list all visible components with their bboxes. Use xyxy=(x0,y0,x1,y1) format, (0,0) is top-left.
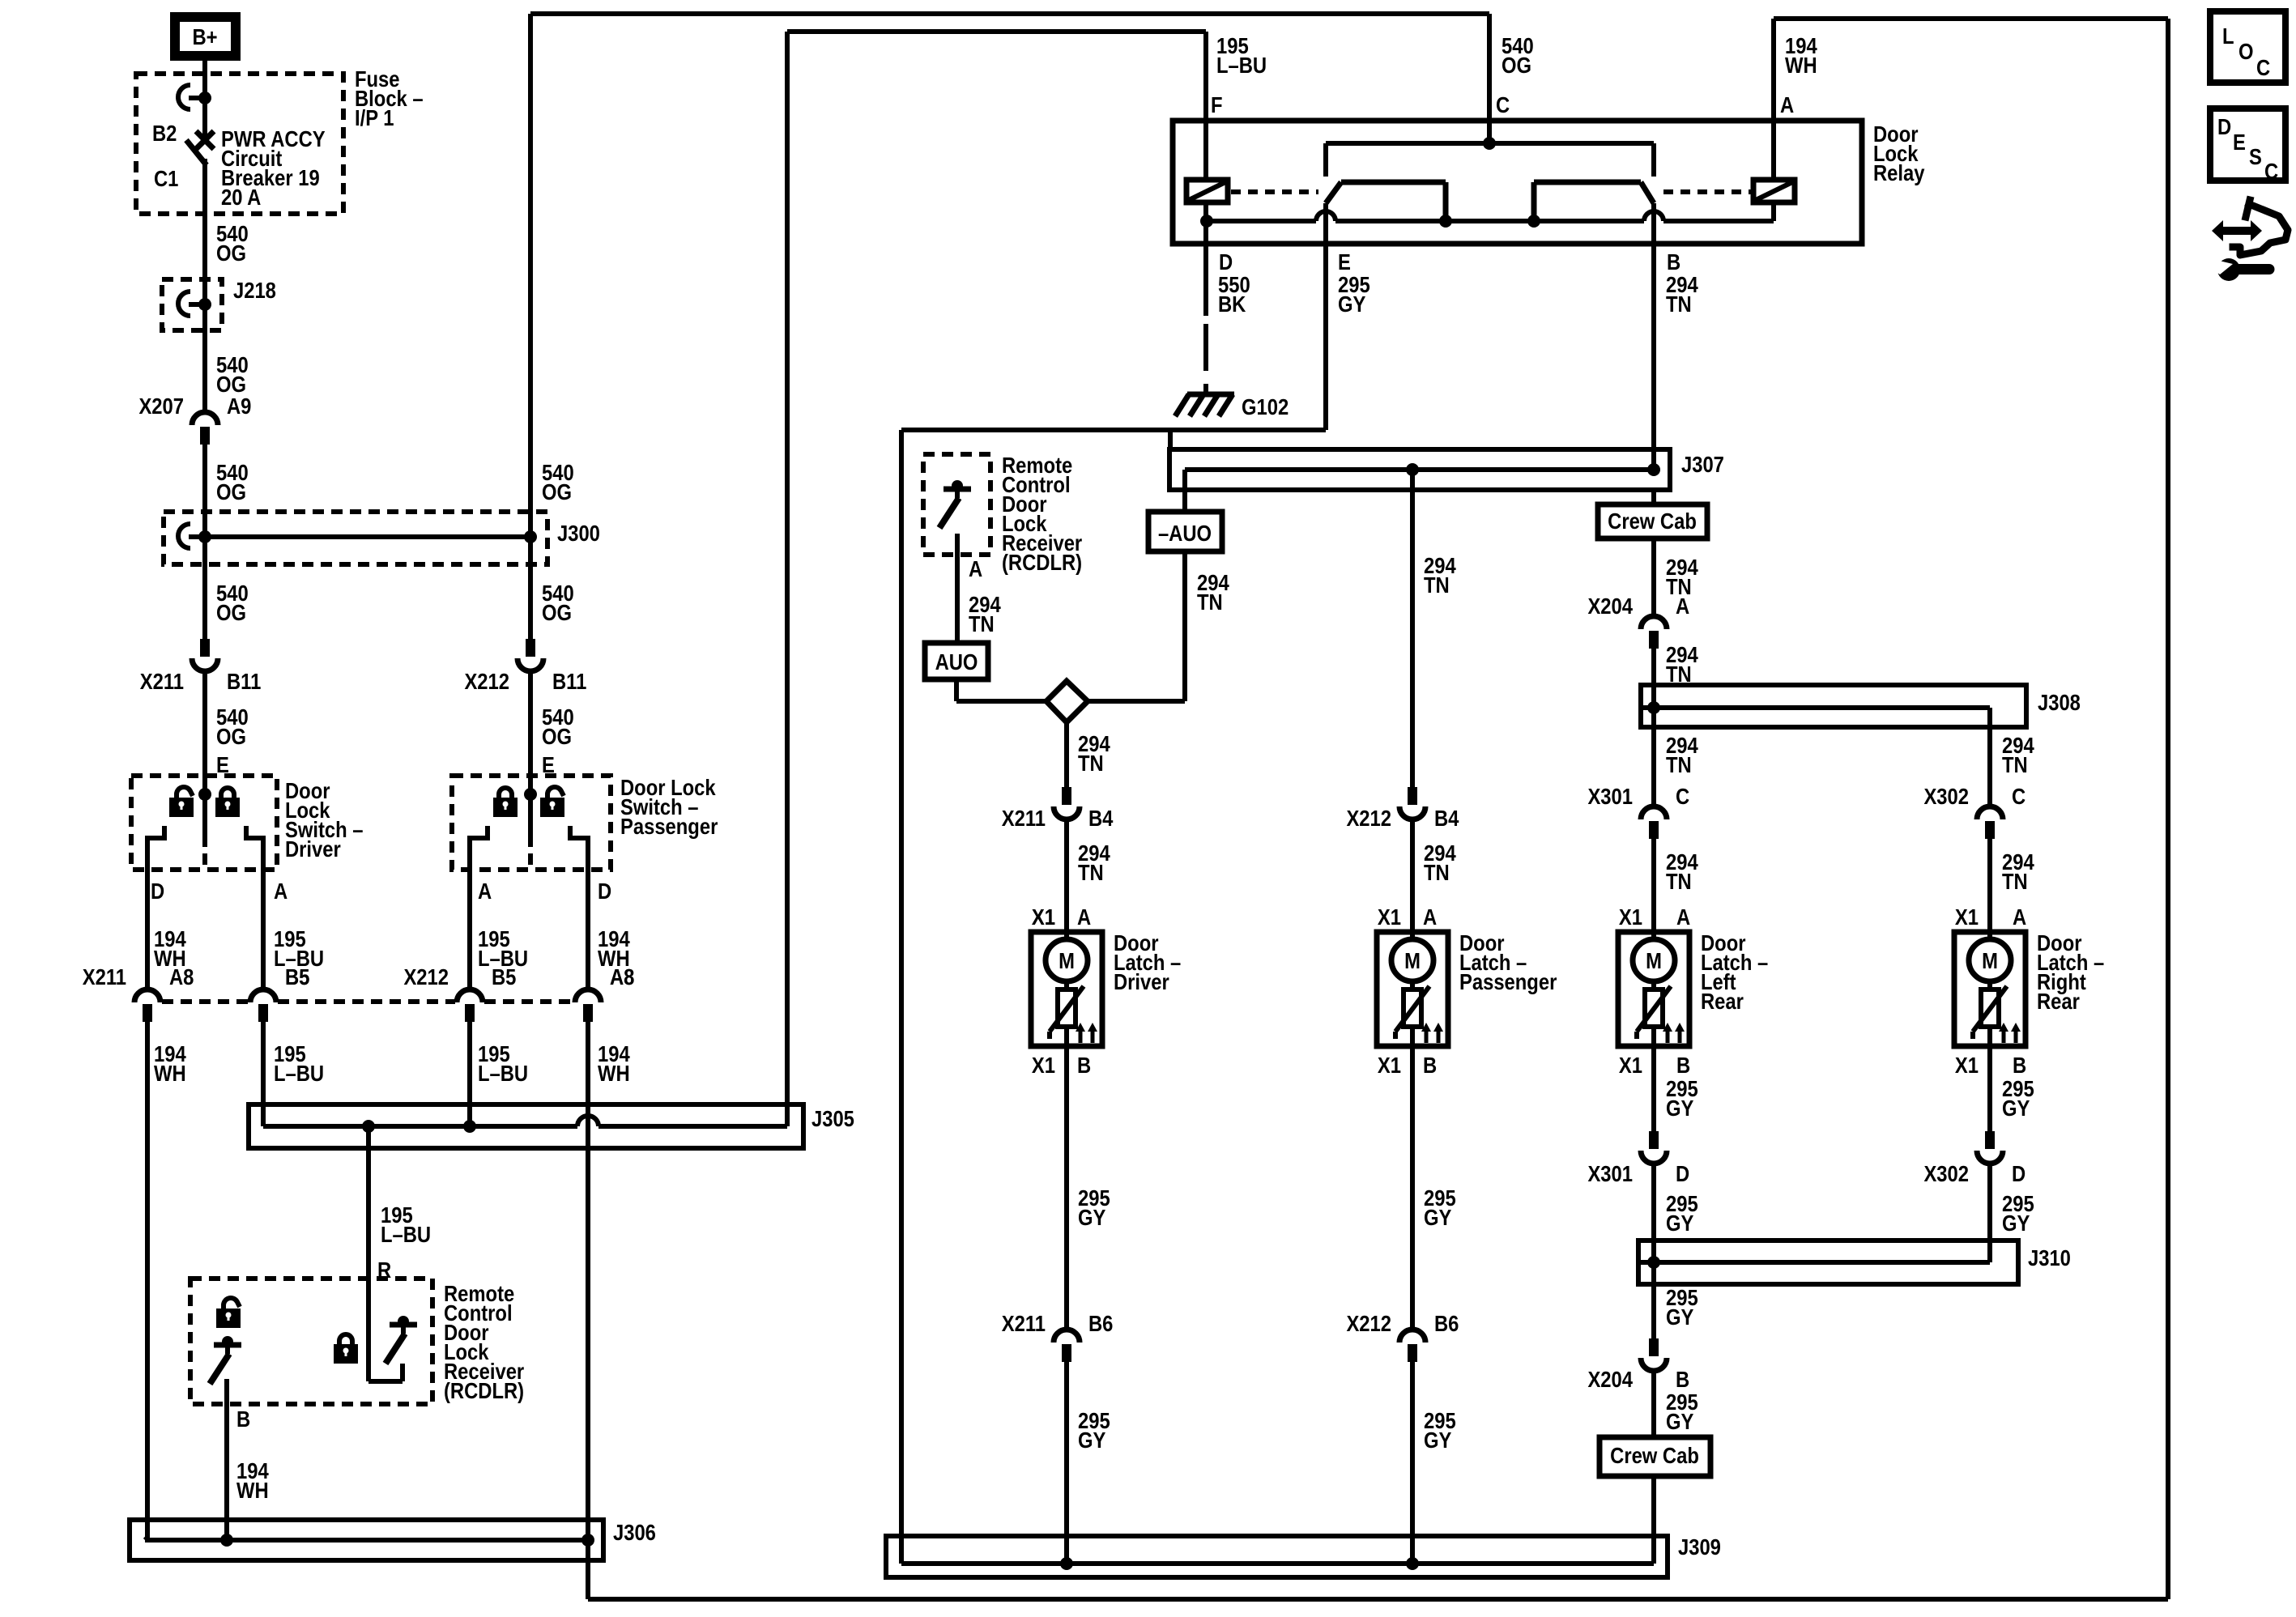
svg-text:L–BU: L–BU xyxy=(274,1060,324,1086)
door lock switch driver dashed box xyxy=(131,776,277,870)
wire 194 WH passenger D to J306 xyxy=(586,1022,590,1538)
svg-text:A: A xyxy=(478,878,492,904)
wire 540 OG breaker to J218 xyxy=(202,159,207,304)
wire 295 GY X204 B to crew cab xyxy=(1651,1371,1656,1437)
svg-text:TN: TN xyxy=(1424,859,1450,885)
relay coil K2 lock xyxy=(1753,180,1795,202)
relay internal common bus xyxy=(1207,219,1316,223)
wire 540 OG X212 to door lock switch passenger xyxy=(528,671,533,776)
svg-text:Passenger: Passenger xyxy=(620,813,718,839)
wire 195 L-BU J305 to RCDLR pin R xyxy=(366,1126,371,1279)
svg-text:M: M xyxy=(1982,947,1998,973)
svg-text:B: B xyxy=(1423,1052,1437,1078)
svg-text:M: M xyxy=(1404,947,1421,973)
svg-text:–AUO: –AUO xyxy=(1158,520,1212,546)
svg-text:B2: B2 xyxy=(152,120,177,146)
svg-text:GY: GY xyxy=(2002,1095,2030,1121)
crew cab option box top xyxy=(1598,504,1707,538)
relay switch right (lock) xyxy=(1534,180,1641,185)
wire 194 WH J306 riser to bottom run xyxy=(586,1540,590,1599)
svg-text:GY: GY xyxy=(1666,1408,1693,1434)
wire 194 WH driver D to J306 xyxy=(145,1022,150,1538)
connector X212 pin B4 xyxy=(1408,787,1417,805)
wire 294 TN X212 to door latch passenger xyxy=(1410,819,1415,932)
connector X212 pin A8 xyxy=(575,989,601,1002)
wire 540 OG top feed to relay pin C xyxy=(530,11,1489,16)
svg-text:J307: J307 xyxy=(1681,451,1724,477)
wire 294 TN relay pin B to J307 xyxy=(1651,203,1656,470)
connector X302 pin D xyxy=(1985,1131,1995,1149)
svg-text:B4: B4 xyxy=(1088,805,1114,831)
svg-text:D: D xyxy=(1676,1160,1689,1186)
wire 195 L-BU passenger A to J305 xyxy=(467,1022,472,1126)
svg-text:X211: X211 xyxy=(140,668,184,694)
wire 295 GY door latch right rear to X302 D xyxy=(1987,1046,1992,1131)
svg-text:B: B xyxy=(1676,1052,1690,1078)
connector X212 pin B11 xyxy=(526,639,535,657)
wire 295 GY X212 B6 to J309 xyxy=(1410,1362,1415,1564)
svg-text:D: D xyxy=(2012,1160,2026,1186)
latch direction arrows xyxy=(1425,1032,1429,1043)
svg-text:B: B xyxy=(236,1406,250,1432)
svg-text:X1: X1 xyxy=(1619,904,1642,930)
svg-text:AUO: AUO xyxy=(935,649,978,674)
svg-text:A: A xyxy=(1780,91,1794,117)
svg-text:X211: X211 xyxy=(1002,1310,1046,1336)
lock padlock icon driver switch xyxy=(221,788,234,798)
svg-text:TN: TN xyxy=(2002,868,2028,894)
wire 295 GY X211 B6 to J309 xyxy=(1064,1362,1069,1564)
svg-text:Driver: Driver xyxy=(1114,968,1169,994)
svg-text:X204: X204 xyxy=(1587,593,1633,619)
LOC reference box xyxy=(2210,11,2285,83)
svg-text:X212: X212 xyxy=(403,964,449,989)
driver switch contact D xyxy=(147,826,164,989)
svg-text:X302: X302 xyxy=(1923,783,1969,809)
dashed connector row X211 to X212 xyxy=(162,999,249,1004)
door lock relay box xyxy=(1173,121,1862,244)
passenger switch contact A xyxy=(470,826,488,989)
splice J310 xyxy=(1638,1240,2018,1284)
svg-text:B: B xyxy=(2013,1052,2026,1078)
relay pin F wire through coil xyxy=(1203,121,1208,180)
svg-text:S: S xyxy=(2249,143,2262,169)
wire 294 TN X302 to door latch right rear xyxy=(1987,839,1992,932)
wire AUO to diamond xyxy=(954,679,959,701)
svg-text:M: M xyxy=(1646,947,1662,973)
wire 540 OG X207 to J300 xyxy=(202,445,207,537)
svg-text:WH: WH xyxy=(154,1060,186,1086)
wire 295 GY door latch passenger to X212 B6 xyxy=(1410,1046,1415,1330)
latch PTC thermistor xyxy=(1058,989,1076,1027)
wire 540 OG J300 to X211 driver xyxy=(202,537,207,639)
connector X211 pin B5 xyxy=(250,989,276,1002)
latch direction arrows xyxy=(1666,1032,1670,1043)
wire 295 GY relay pin E to J309 left riser xyxy=(1323,244,1328,430)
wire 294 TN J307 to X212 B4 xyxy=(1410,470,1415,787)
svg-text:TN: TN xyxy=(1424,572,1450,598)
svg-text:A: A xyxy=(1077,904,1091,930)
svg-text:TN: TN xyxy=(2002,751,2028,777)
wire 295 GY X302 D to J310 xyxy=(1987,1164,1992,1262)
svg-text:J310: J310 xyxy=(2028,1245,2071,1270)
connector pigtail inside fuse block xyxy=(178,85,190,109)
splice J308 xyxy=(1641,685,2026,727)
wire 550 BK relay pin D to ground xyxy=(1203,244,1208,316)
svg-text:OG: OG xyxy=(216,240,246,266)
svg-text:Crew Cab: Crew Cab xyxy=(1608,508,1697,534)
svg-text:Crew Cab: Crew Cab xyxy=(1610,1442,1699,1468)
svg-text:A: A xyxy=(1676,904,1690,930)
svg-text:Rear: Rear xyxy=(1701,988,1744,1014)
wire 294 TN diamond to X211 B4 xyxy=(1064,722,1069,787)
wire 294 TN X204 to J308 xyxy=(1651,649,1656,708)
remote control door lock receiver RCDLR dashed box top xyxy=(923,454,990,555)
crew cab option box bottom xyxy=(1600,1437,1710,1476)
switch common E wire and wiper passenger xyxy=(528,776,533,847)
latch PTC thermistor xyxy=(1404,989,1421,1027)
DESC reference box xyxy=(2210,109,2285,181)
wire 540 OG J218 to X207 xyxy=(202,304,207,412)
door latch motor box Passenger xyxy=(1377,932,1448,1046)
splice J300 xyxy=(164,512,547,564)
svg-text:X211: X211 xyxy=(1002,805,1046,831)
svg-text:GY: GY xyxy=(2002,1210,2030,1236)
wire 540 OG J300 to X212 xyxy=(528,537,533,639)
svg-text:A: A xyxy=(1423,904,1437,930)
battery terminal B+ xyxy=(170,12,241,61)
latch direction arrows xyxy=(1079,1032,1083,1043)
svg-text:OG: OG xyxy=(542,479,572,504)
relay dashed actuator link right xyxy=(1663,189,1751,194)
splice J305 xyxy=(249,1104,803,1148)
relay pin C internal feed xyxy=(1487,121,1492,143)
svg-text:C1: C1 xyxy=(154,165,178,191)
svg-text:B4: B4 xyxy=(1434,805,1459,831)
svg-text:E: E xyxy=(2233,129,2246,155)
lock padlock icon RCDLR xyxy=(339,1334,352,1345)
svg-text:X301: X301 xyxy=(1587,1160,1633,1186)
splice J306 xyxy=(130,1520,603,1560)
splice J218 xyxy=(162,279,222,330)
wire 194 WH bottom run to relay pin A xyxy=(588,1597,2168,1602)
svg-text:C: C xyxy=(2012,783,2026,809)
diagnostic jump icon with double arrow and wrench xyxy=(2212,220,2262,241)
svg-text:B+: B+ xyxy=(192,23,217,49)
svg-text:X1: X1 xyxy=(1619,1052,1642,1078)
svg-text:J309: J309 xyxy=(1678,1534,1721,1560)
RCDLR lock switch xyxy=(366,1279,371,1381)
wire 195 L-BU driver A to J305 xyxy=(261,1022,266,1126)
latch direction arrows xyxy=(2002,1032,2006,1043)
svg-text:L–BU: L–BU xyxy=(1216,52,1267,78)
svg-text:WH: WH xyxy=(1785,52,1817,78)
svg-text:I/P 1: I/P 1 xyxy=(355,104,394,130)
svg-text:20 A: 20 A xyxy=(221,184,262,210)
connector X301 pin C xyxy=(1641,806,1667,819)
svg-text:TN: TN xyxy=(1666,291,1692,317)
svg-text:TN: TN xyxy=(969,611,995,636)
svg-text:A8: A8 xyxy=(169,964,194,989)
svg-text:OG: OG xyxy=(216,723,246,749)
svg-text:BK: BK xyxy=(1218,291,1246,317)
svg-text:X212: X212 xyxy=(1346,1310,1391,1336)
svg-text:OG: OG xyxy=(216,599,246,625)
AUO terminal box xyxy=(925,643,988,679)
svg-text:L–BU: L–BU xyxy=(381,1221,431,1247)
wire 195 L-BU J305 feed to relay pin F xyxy=(787,29,1206,34)
svg-text:X212: X212 xyxy=(1346,805,1391,831)
door latch motor box Driver xyxy=(1031,932,1102,1046)
svg-text:TN: TN xyxy=(1078,750,1104,776)
svg-text:TN: TN xyxy=(1666,751,1692,777)
svg-text:B: B xyxy=(1077,1052,1091,1078)
svg-text:TN: TN xyxy=(1666,868,1692,894)
svg-text:A: A xyxy=(969,555,982,581)
svg-text:Relay: Relay xyxy=(1873,160,1925,185)
svg-text:C: C xyxy=(2256,54,2270,80)
svg-text:(RCDLR): (RCDLR) xyxy=(1002,549,1082,575)
svg-text:A: A xyxy=(1676,593,1689,619)
remote control door lock receiver RCDLR dashed box xyxy=(190,1279,432,1404)
wire 294 TN J308 to X301 C xyxy=(1651,708,1656,806)
svg-text:A: A xyxy=(2013,904,2026,930)
svg-text:J218: J218 xyxy=(233,277,276,303)
svg-text:D: D xyxy=(151,878,164,904)
wire 294 TN X211 to door latch driver xyxy=(1064,819,1069,932)
door latch motor box Rear xyxy=(1954,932,2026,1046)
svg-text:WH: WH xyxy=(236,1477,269,1503)
svg-text:X1: X1 xyxy=(1378,904,1401,930)
wire 295 GY J310 to X204 B xyxy=(1651,1262,1656,1338)
lock padlock icon passenger switch xyxy=(499,788,512,798)
connector X207 pin A9 xyxy=(192,412,218,425)
svg-text:O: O xyxy=(2238,38,2254,64)
svg-text:L–BU: L–BU xyxy=(478,1060,528,1086)
svg-text:X302: X302 xyxy=(1923,1160,1969,1186)
connector X204 pin A xyxy=(1641,616,1667,629)
svg-text:X1: X1 xyxy=(1032,904,1055,930)
svg-text:X301: X301 xyxy=(1587,783,1633,809)
svg-text:F: F xyxy=(1211,91,1223,117)
svg-text:J305: J305 xyxy=(811,1105,854,1131)
svg-text:X1: X1 xyxy=(1955,904,1979,930)
svg-text:L: L xyxy=(2222,23,2234,49)
unlock padlock icon passenger switch xyxy=(547,787,564,798)
connector X212 pin B5 xyxy=(457,989,483,1002)
driver switch contact A xyxy=(246,826,263,989)
relay pin A wire through coil xyxy=(1771,121,1776,180)
junction diamond xyxy=(1046,681,1088,722)
unlock padlock icon RCDLR xyxy=(224,1298,240,1308)
wire 295 GY X301 D to J310 xyxy=(1651,1164,1656,1262)
door lock switch passenger dashed box xyxy=(452,776,611,870)
svg-text:C: C xyxy=(2264,158,2278,184)
svg-text:OG: OG xyxy=(1502,52,1531,78)
relay coil K1 unlock xyxy=(1186,180,1228,202)
svg-text:A: A xyxy=(274,878,288,904)
svg-text:GY: GY xyxy=(1078,1204,1105,1230)
svg-text:(RCDLR): (RCDLR) xyxy=(444,1377,524,1403)
door latch motor box Rear xyxy=(1618,932,1689,1046)
svg-text:TN: TN xyxy=(1197,589,1223,615)
splice J307 xyxy=(1168,430,1173,449)
svg-text:A8: A8 xyxy=(610,964,634,989)
svg-text:G102: G102 xyxy=(1242,394,1289,419)
connector X302 pin C xyxy=(1977,806,2003,819)
svg-text:D: D xyxy=(2217,113,2231,139)
relay dashed actuator link left xyxy=(1231,189,1318,194)
negative AUO terminal box xyxy=(1148,512,1222,551)
connector X204 pin B xyxy=(1649,1338,1659,1356)
svg-text:OG: OG xyxy=(542,723,572,749)
svg-text:OG: OG xyxy=(542,599,572,625)
svg-text:GY: GY xyxy=(1666,1304,1693,1330)
svg-text:D: D xyxy=(598,878,611,904)
svg-text:WH: WH xyxy=(598,1060,630,1086)
wire 540 OG top feed to J300 passenger branch xyxy=(528,14,533,537)
svg-text:GY: GY xyxy=(1424,1204,1451,1230)
svg-text:M: M xyxy=(1059,947,1075,973)
connector X211 pin B11 xyxy=(200,639,210,657)
RCDLR transmit switch xyxy=(944,487,971,492)
svg-text:C: C xyxy=(1496,91,1510,117)
svg-text:X1: X1 xyxy=(1955,1052,1979,1078)
svg-text:X211: X211 xyxy=(83,964,126,989)
svg-text:Driver: Driver xyxy=(285,836,341,862)
svg-text:GY: GY xyxy=(1666,1095,1693,1121)
svg-text:J300: J300 xyxy=(557,520,600,546)
svg-text:OG: OG xyxy=(216,479,246,504)
svg-text:X204: X204 xyxy=(1587,1366,1633,1392)
svg-text:GY: GY xyxy=(1666,1210,1693,1236)
connector X211 pin A8 xyxy=(134,989,160,1002)
svg-text:B11: B11 xyxy=(552,668,586,694)
svg-text:B5: B5 xyxy=(492,964,516,989)
svg-text:X1: X1 xyxy=(1032,1052,1055,1078)
wire 194 WH RCDLR pin B to J306 xyxy=(224,1379,229,1540)
connector X212 pin B6 xyxy=(1399,1330,1425,1343)
circuit breaker 19 PWR ACCY 20A xyxy=(202,98,207,136)
svg-text:Rear: Rear xyxy=(2037,988,2080,1014)
wire 294 TN RCDLR pin A to AUO xyxy=(955,534,960,643)
svg-text:TN: TN xyxy=(1078,859,1104,885)
wire 294 TN -AUO to diamond xyxy=(1182,551,1187,701)
svg-text:X207: X207 xyxy=(138,393,184,419)
wire 295 GY door latch left rear to X301 D xyxy=(1651,1046,1656,1131)
connector X211 pin B6 xyxy=(1054,1330,1080,1343)
wire 295 GY crew cab to J309 xyxy=(1651,1476,1656,1564)
svg-text:A9: A9 xyxy=(227,393,251,419)
svg-text:B6: B6 xyxy=(1088,1310,1113,1336)
splice J309 xyxy=(886,1536,1668,1577)
connector X211 pin B4 xyxy=(1062,787,1071,805)
ground G102 xyxy=(1187,392,1234,398)
RCDLR unlock switch xyxy=(214,1343,241,1348)
svg-text:J306: J306 xyxy=(613,1519,656,1545)
svg-text:X1: X1 xyxy=(1378,1052,1401,1078)
wire B+ to fuse block xyxy=(202,61,207,97)
svg-text:B6: B6 xyxy=(1434,1310,1459,1336)
wire 294 TN X301 to door latch left rear xyxy=(1651,839,1656,932)
switch common E wire and wiper driver xyxy=(202,776,207,847)
svg-text:J308: J308 xyxy=(2038,689,2081,715)
wire 294 TN J307 to crew cab xyxy=(1651,490,1656,504)
relay switch left (unlock) xyxy=(1341,180,1446,185)
svg-text:B11: B11 xyxy=(227,668,261,694)
svg-text:C: C xyxy=(1676,783,1689,809)
latch PTC thermistor xyxy=(1981,989,1999,1027)
svg-text:X212: X212 xyxy=(464,668,509,694)
passenger switch contact D xyxy=(570,826,588,989)
latch PTC thermistor xyxy=(1645,989,1663,1027)
connector X301 pin D xyxy=(1649,1131,1659,1149)
wire 295 GY door latch driver to X211 B6 xyxy=(1064,1046,1069,1330)
wire 294 TN crew cab to X204 xyxy=(1651,538,1656,616)
svg-text:B5: B5 xyxy=(285,964,309,989)
svg-text:GY: GY xyxy=(1078,1427,1105,1453)
unlock padlock icon driver switch xyxy=(177,787,193,798)
wire 540 OG X211 to door lock switch driver xyxy=(202,671,207,776)
svg-text:GY: GY xyxy=(1338,291,1365,317)
svg-text:GY: GY xyxy=(1424,1427,1451,1453)
svg-text:Passenger: Passenger xyxy=(1459,968,1557,994)
fuse block I/P 1 dashed box xyxy=(136,74,343,214)
